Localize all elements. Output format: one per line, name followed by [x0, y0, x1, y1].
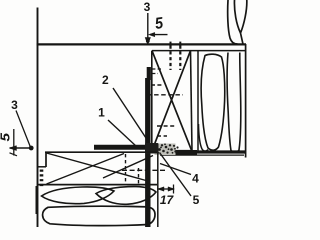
dash-dot line in box y85: [151, 84, 163, 86]
svg-text:5: 5: [0, 132, 12, 141]
leader for label 1: [108, 120, 136, 146]
dashed dowel line a: [169, 46, 171, 71]
insulation squiggle top right S1: [228, 0, 238, 44]
insulation oval B (right channel): [227, 53, 241, 153]
svg-text:2: 2: [102, 73, 109, 87]
band dash-dot axis: [122, 169, 165, 171]
stud box (timber section) top-right: left edge: [151, 51, 153, 151]
svg-text:1: 1: [98, 106, 105, 120]
bottom panel end ledge: [38, 166, 47, 168]
wire: main vertical wall face line: [37, 8, 39, 228]
svg-text:4: 4: [192, 172, 199, 186]
insulation squiggle top right S2: [234, 0, 240, 33]
joint dark band under stud box: [156, 150, 197, 155]
leader for label 5: [160, 153, 192, 197]
bottom panel hatch band bottom edge: [38, 184, 157, 186]
band diagonal A: [47, 153, 147, 181]
bottom insulation lens row1 right: [96, 187, 156, 205]
junction: thick horizontal seal bar: [94, 145, 157, 150]
svg-text:17: 17: [160, 193, 175, 207]
bottom panel top edge: [45, 151, 157, 153]
dash-dot line in box y95: [147, 94, 183, 96]
sealing strip: thick vertical black bar: [147, 67, 151, 80]
wire: inner skin horizontal line: [152, 50, 246, 52]
dimension 17 line with arrows: [159, 188, 174, 190]
wire: insulation channel left line: [197, 51, 199, 152]
band diagonal C: [103, 156, 153, 179]
stipple sealant patch: [145, 143, 179, 155]
svg-text:5: 5: [193, 193, 200, 207]
label 3 left leader: [16, 111, 31, 148]
leader for label 4: [160, 164, 191, 175]
tick on line a: [170, 42, 172, 46]
stud box diagonal 2: [152, 51, 190, 150]
wire: main horizontal wall face line: [37, 43, 247, 45]
dash line in box y136: [157, 135, 167, 137]
joint bottom cap line: [156, 150, 246, 153]
left dimension tick line: [13, 129, 15, 156]
dash marks right of seal bar: [152, 68, 162, 70]
svg-text:3: 3: [11, 98, 18, 112]
tick on line b: [179, 42, 181, 46]
svg-text:3: 3: [144, 0, 151, 14]
joint bottom thin line: [160, 154, 244, 156]
left dimension arrow (5): [10, 147, 31, 149]
stud box bottom edge: [152, 150, 192, 152]
stud box diagonal 1: [152, 51, 191, 150]
stud box right edge: [191, 51, 193, 151]
wire: right panel outer edge: [245, 44, 247, 158]
dash line in box y126: [157, 125, 176, 127]
label 3 top leader arrow: [147, 13, 149, 38]
bottom panel left end edge: [45, 152, 47, 167]
vertical line under junction: [157, 153, 159, 228]
insulation oval A (right channel): [201, 54, 225, 150]
dashed dowel line b: [179, 46, 181, 71]
band vertical dashed hidden edge: [125, 154, 127, 184]
top dimension arrow (5): [150, 34, 168, 36]
dashed joint strip below ledge: [40, 170, 44, 189]
bottom insulation loop row2: [43, 206, 155, 225]
insulation squiggle top right S3: [241, 0, 247, 44]
insulation oval A left lead-in: [199, 124, 209, 151]
leader for label 2: [113, 88, 146, 138]
band vertical dashed hidden edge 2: [138, 168, 140, 186]
bottom insulation lens row1 left: [42, 187, 115, 204]
band diagonal B: [47, 154, 125, 185]
